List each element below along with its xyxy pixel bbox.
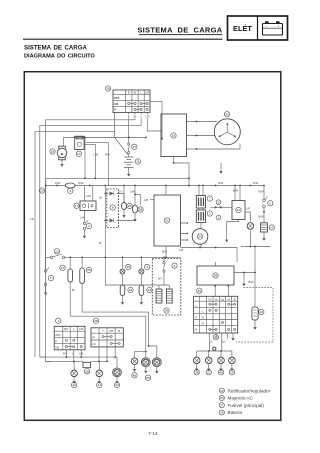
svg-text:13: 13 [270,226,274,230]
svg-text:B/Y: B/Y [63,352,68,356]
svg-text:28: 28 [214,274,218,278]
svg-text:21: 21 [165,219,169,223]
svg-text:M: M [61,152,64,156]
svg-text:27: 27 [220,403,224,407]
svg-text:–: – [266,24,268,28]
svg-text:+: + [278,25,280,29]
svg-text:L/R: L/R [179,248,183,252]
svg-text:L/W: L/W [86,194,91,198]
svg-text:7-14: 7-14 [148,431,158,437]
svg-text:2: 2 [50,276,52,280]
svg-text:28: 28 [94,319,98,323]
svg-text:R/W: R/W [258,190,264,194]
svg-text:P: P [114,108,116,112]
svg-text:2: 2 [88,224,90,228]
svg-text:R/W: R/W [105,153,111,157]
svg-text:L/B: L/B [30,217,34,221]
svg-text:21: 21 [207,371,211,375]
svg-text:1: 1 [57,319,59,323]
svg-text:DIAGRAMA DO CIRCUITO: DIAGRAMA DO CIRCUITO [24,54,95,60]
svg-text:L/R: L/R [246,207,250,211]
svg-text:10: 10 [237,208,241,212]
svg-text:B: B [196,328,198,332]
svg-text:19: 19 [230,371,234,375]
svg-text:20: 20 [220,396,224,400]
svg-text:SISTEMA DE CARGA: SISTEMA DE CARGA [137,25,222,34]
svg-text:Y: Y [102,329,104,333]
svg-text:Hi: Hi [227,297,230,301]
svg-text:L: L [140,115,142,119]
svg-text:L/R: L/R [145,91,149,95]
svg-text:Bateria: Bateria [228,410,243,415]
svg-text:16: 16 [106,87,110,91]
svg-text:3: 3 [218,216,220,220]
svg-text:B/W: B/W [249,280,255,284]
svg-text:OFF: OFF [114,96,120,100]
svg-text:L/R: L/R [79,327,83,331]
svg-text:Br: Br [134,91,137,95]
svg-text:6: 6 [174,264,176,268]
svg-text:N: N [195,316,197,320]
svg-text:8: 8 [112,206,114,210]
svg-text:B: B [234,297,236,301]
svg-text:45: 45 [133,374,137,378]
svg-text:27: 27 [133,145,137,149]
svg-text:9: 9 [218,200,220,204]
svg-text:L/W: L/W [130,190,135,194]
svg-text:34: 34 [198,289,202,293]
svg-text:22: 22 [40,189,44,193]
svg-text:38: 38 [195,371,199,375]
svg-text:41: 41 [98,383,102,387]
svg-text:17: 17 [75,204,79,208]
svg-text:Dg: Dg [221,297,225,301]
svg-text:R/W: R/W [78,181,84,185]
svg-text:20: 20 [225,113,229,117]
svg-text:44: 44 [115,383,119,387]
svg-text:25: 25 [128,204,132,208]
svg-text:SISTEMA DE CARGA: SISTEMA DE CARGA [24,45,87,52]
svg-text:Dg: Dg [221,340,225,344]
svg-text:L/B: L/B [109,329,113,333]
svg-text:23: 23 [148,288,152,292]
svg-text:L/Y: L/Y [118,190,122,194]
svg-text:17: 17 [77,152,81,156]
svg-text:L/R: L/R [145,115,149,119]
svg-text:4: 4 [146,265,148,269]
svg-text:sw: sw [214,298,217,301]
svg-text:40: 40 [127,265,131,269]
svg-text:P: P [55,339,57,343]
svg-text:19: 19 [220,389,224,393]
svg-text:Ch: Ch [209,340,213,344]
svg-text:Retificador/regulador: Retificador/regulador [228,388,271,393]
svg-text:R/W: R/W [55,181,61,185]
svg-text:36: 36 [85,369,89,373]
svg-text:ON: ON [55,345,59,349]
svg-text:R/W: R/W [253,181,259,185]
svg-text:Br: Br [72,288,75,292]
svg-text:Br: Br [134,115,137,119]
svg-text:B/Y: B/Y [64,327,69,331]
svg-text:16: 16 [136,160,140,164]
svg-text:43: 43 [260,310,264,314]
svg-text:B/W: B/W [162,250,168,254]
svg-text:Br: Br [99,241,102,245]
svg-text:29: 29 [165,309,169,313]
svg-text:35: 35 [146,376,150,380]
svg-text:4: 4 [69,189,71,193]
svg-text:7: 7 [209,197,211,201]
svg-text:B: B [118,329,120,333]
svg-text:19: 19 [172,134,176,138]
svg-text:42: 42 [72,383,76,387]
svg-text:HI: HI [92,335,95,339]
svg-text:L: L [202,309,204,313]
svg-text:18: 18 [51,150,55,154]
svg-text:R: R [202,322,204,326]
svg-text:39: 39 [87,268,91,272]
svg-text:5: 5 [269,202,271,206]
svg-text:L/W: L/W [80,216,85,220]
svg-text:24: 24 [198,235,202,239]
svg-text:L: L [140,91,142,95]
svg-text:2: 2 [209,212,211,216]
svg-text:L: L [196,303,198,307]
svg-text:ELÉT: ELÉT [233,24,252,33]
svg-text:B/W: B/W [259,215,265,219]
svg-text:23: 23 [55,249,59,253]
svg-text:28: 28 [139,208,143,212]
svg-text:Ch: Ch [208,297,212,301]
svg-text:Br: Br [100,196,103,200]
svg-text:16: 16 [220,411,224,415]
svg-text:47: 47 [61,266,65,270]
svg-text:LO: LO [92,342,96,346]
svg-text:B: B [128,115,130,119]
svg-text:L/B: L/B [79,352,83,356]
svg-text:B/Y: B/Y [158,277,163,281]
svg-text:23: 23 [129,288,133,292]
svg-text:L: L [73,327,75,331]
svg-text:L/R: L/R [144,198,148,202]
svg-text:ON: ON [114,102,118,106]
svg-text:OFF: OFF [55,333,61,337]
svg-text:R/W: R/W [218,181,224,185]
svg-text:46: 46 [219,371,223,375]
svg-text:Fusível (principal): Fusível (principal) [228,403,265,408]
svg-text:B/W: B/W [233,189,239,193]
svg-text:30: 30 [214,336,218,340]
svg-text:B: B [128,91,130,95]
svg-text:L/W: L/W [94,153,99,157]
svg-text:N: N [202,316,204,320]
svg-text:Magneto AC: Magneto AC [228,396,254,401]
